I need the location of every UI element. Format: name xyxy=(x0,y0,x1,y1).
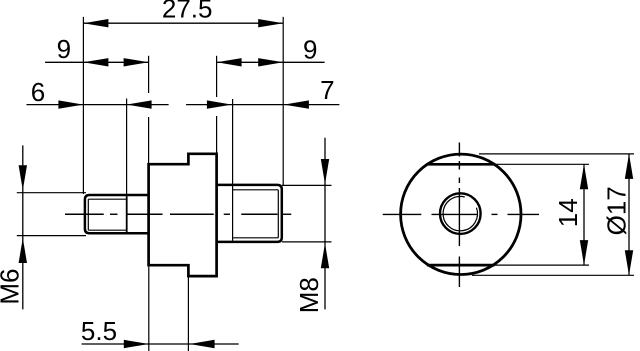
dimension 5.5 arrow right xyxy=(190,340,215,348)
dimension 7 line xyxy=(186,104,339,106)
dimension 9 right arrow a xyxy=(217,58,242,66)
dimension 14 arrow up xyxy=(580,164,588,189)
M8 stud outline xyxy=(217,185,282,242)
extension line 14 bottom xyxy=(495,264,589,266)
centerline front view horizontal xyxy=(383,213,539,215)
svg-text:Ø17: Ø17 xyxy=(602,186,632,235)
front view outer circle xyxy=(401,154,521,274)
extension line M8 top xyxy=(282,184,332,186)
M6 thread chamfer edge xyxy=(87,199,89,230)
dimension 5.5 line xyxy=(82,343,239,345)
extension line M6 top xyxy=(17,192,86,194)
extension line 5.5 left xyxy=(148,267,150,351)
extension line diameter 17 bottom xyxy=(472,274,634,276)
front view top flat chord xyxy=(427,163,495,166)
front view bottom flat chord xyxy=(427,264,495,267)
dimension 27.5 arrow right xyxy=(258,19,283,27)
centerline front view vertical xyxy=(458,143,460,288)
extension line left end of stud x83 xyxy=(82,17,84,194)
dimension M8 arrow up xyxy=(321,243,329,268)
extension line thread end M6 x126.6 xyxy=(126,99,128,195)
extension line M8 bottom xyxy=(282,241,332,243)
M8 thread root bottom xyxy=(233,237,279,239)
dimension 6 arrow right xyxy=(127,100,152,108)
svg-text:M8: M8 xyxy=(294,277,324,313)
svg-text:9: 9 xyxy=(57,34,71,64)
extension line body right face upper x216.6 xyxy=(216,56,218,97)
dimension M6 arrow down xyxy=(19,165,27,190)
M6 stud outline xyxy=(85,195,149,233)
extension line body left face upper x148.6 xyxy=(148,56,150,93)
centerline side view xyxy=(65,213,291,215)
dimension diameter 17 arrow up xyxy=(625,154,633,179)
extension line diameter 17 top xyxy=(479,153,634,155)
dimension 9 left line xyxy=(45,61,149,63)
dimension M6 arrow up xyxy=(19,238,27,263)
dimension 6 line xyxy=(27,104,169,106)
dimension 6 arrow left xyxy=(58,100,83,108)
extension line 5.5 right xyxy=(187,278,189,351)
svg-text:9: 9 xyxy=(303,34,317,64)
extension line thread runout M8 x232.6 xyxy=(232,99,234,241)
dimension M6 vertical line xyxy=(22,145,24,309)
front view thread major circle xyxy=(440,193,481,234)
svg-text:14: 14 xyxy=(553,198,583,227)
dimension diameter 17 vertical line xyxy=(628,154,630,275)
dimension M8 arrow down xyxy=(321,159,329,184)
extension line 14 top xyxy=(495,163,589,165)
dimension 9 right arrow b xyxy=(258,58,283,66)
dimension 14 arrow down xyxy=(580,240,588,265)
dimension diameter 17 arrow down xyxy=(625,250,633,275)
dimension 27.5 arrow left xyxy=(83,19,108,27)
dimension 9 left arrow a xyxy=(83,58,108,66)
svg-text:7: 7 xyxy=(320,75,334,105)
body outline xyxy=(149,154,217,276)
svg-text:27.5: 27.5 xyxy=(162,0,213,24)
dimension 14 vertical line xyxy=(583,164,585,265)
dimension 7 arrow right xyxy=(284,100,309,108)
M6 thread root bottom xyxy=(88,229,126,231)
dimension 9 left arrow b xyxy=(124,58,149,66)
extension line body right face lower x216.6 xyxy=(216,116,218,154)
dimension M8 vertical line xyxy=(324,138,326,310)
M8 thread chamfer edge xyxy=(277,190,279,238)
dimension 9 right line xyxy=(217,61,325,63)
M8 thread root top xyxy=(233,189,279,191)
svg-text:6: 6 xyxy=(31,77,45,107)
extension line body left face lower x148.6 xyxy=(148,117,150,164)
svg-text:M6: M6 xyxy=(0,269,25,305)
front view thread root arc xyxy=(443,196,477,230)
svg-text:5.5: 5.5 xyxy=(81,316,117,346)
dimension 27.5 line xyxy=(83,22,283,24)
M6 thread root top xyxy=(88,198,126,200)
extension line right end of stud x283 xyxy=(282,17,284,186)
dimension 5.5 arrow left xyxy=(124,340,149,348)
M6 thread runout line xyxy=(126,196,128,232)
dimension 7 arrow left xyxy=(207,100,232,108)
extension line M6 bottom xyxy=(17,235,86,237)
